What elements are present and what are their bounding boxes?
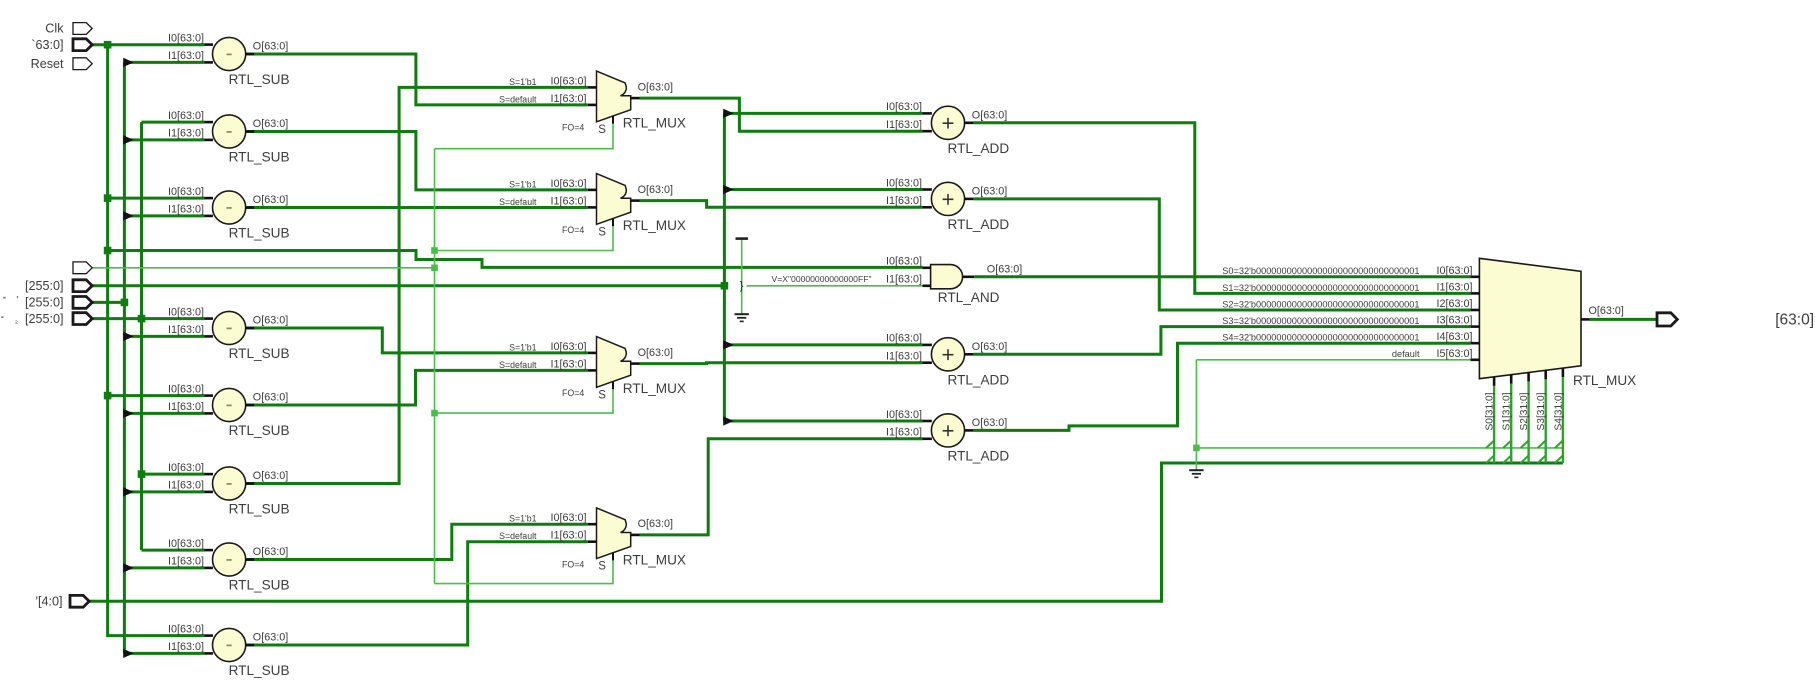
svg-text:I1[63:0]: I1[63:0]: [168, 50, 204, 62]
svg-text:RTL_SUB: RTL_SUB: [229, 72, 290, 87]
svg-text:RTL_MUX: RTL_MUX: [623, 381, 686, 396]
svg-text:I0[63:0]: I0[63:0]: [550, 512, 586, 524]
svg-text:RTL_SUB: RTL_SUB: [229, 346, 290, 361]
svg-text:I1[63:0]: I1[63:0]: [886, 195, 922, 207]
svg-text:O[63:0]: O[63:0]: [987, 264, 1022, 276]
svg-text:I1[63:0]: I1[63:0]: [886, 119, 922, 131]
svg-text:S: S: [598, 124, 606, 136]
svg-text:S=default: S=default: [499, 360, 537, 370]
svg-text:I1[63:0]: I1[63:0]: [550, 530, 586, 542]
svg-text:[255:0]: [255:0]: [25, 312, 64, 326]
svg-text:O[63:0]: O[63:0]: [253, 41, 288, 53]
svg-text:I2[63:0]: I2[63:0]: [1436, 298, 1472, 310]
svg-text:RTL_MUX: RTL_MUX: [623, 552, 686, 567]
svg-text:}: }: [740, 280, 744, 292]
svg-text:I1[63:0]: I1[63:0]: [550, 358, 586, 370]
svg-text:I1[63:0]: I1[63:0]: [886, 351, 922, 363]
svg-text:I0[63:0]: I0[63:0]: [168, 383, 204, 395]
svg-text:RTL_SUB: RTL_SUB: [229, 663, 290, 678]
svg-text:RTL_SUB: RTL_SUB: [229, 502, 290, 517]
svg-text:O[63:0]: O[63:0]: [638, 81, 673, 93]
svg-text:I0[63:0]: I0[63:0]: [168, 462, 204, 474]
svg-text:S0[31:0]: S0[31:0]: [1485, 392, 1496, 430]
svg-text:S=default: S=default: [499, 197, 537, 207]
svg-text:I1[63:0]: I1[63:0]: [168, 641, 204, 653]
svg-text:S1=32'b00000000000000000000000: S1=32'b00000000000000000000000000000001: [1222, 283, 1419, 293]
svg-text:O[63:0]: O[63:0]: [1589, 305, 1624, 317]
svg-text:V=X"00000000000000FF": V=X"00000000000000FF": [772, 274, 872, 284]
svg-text:I1[63:0]: I1[63:0]: [168, 480, 204, 492]
svg-text:I0[63:0]: I0[63:0]: [550, 75, 586, 87]
svg-text:I0[63:0]: I0[63:0]: [886, 409, 922, 421]
svg-text:S4=32'b00000000000000000000000: S4=32'b00000000000000000000000000000001: [1222, 333, 1419, 343]
svg-text:I1[63:0]: I1[63:0]: [168, 204, 204, 216]
svg-text:I0[63:0]: I0[63:0]: [886, 177, 922, 189]
svg-text:S: S: [598, 226, 606, 238]
svg-text:S=default: S=default: [499, 94, 537, 104]
svg-text:RTL_SUB: RTL_SUB: [229, 423, 290, 438]
svg-text:O[63:0]: O[63:0]: [253, 632, 288, 644]
svg-text:O[63:0]: O[63:0]: [253, 392, 288, 404]
svg-text:S1[31:0]: S1[31:0]: [1502, 392, 1513, 430]
svg-text:Clk: Clk: [45, 22, 64, 36]
svg-text:I0[63:0]: I0[63:0]: [1436, 265, 1472, 277]
svg-text:I0[63:0]: I0[63:0]: [886, 255, 922, 267]
svg-text:S=1'b1: S=1'b1: [509, 342, 536, 352]
svg-text:S4[31:0]: S4[31:0]: [1553, 392, 1564, 430]
svg-text:I0[63:0]: I0[63:0]: [168, 32, 204, 44]
svg-text:O[63:0]: O[63:0]: [253, 470, 288, 482]
svg-text:FO=4: FO=4: [562, 560, 584, 570]
svg-text:I1[63:0]: I1[63:0]: [1436, 281, 1472, 293]
svg-text:I0[63:0]: I0[63:0]: [886, 333, 922, 345]
svg-text:S: S: [598, 561, 606, 573]
svg-text:I5[63:0]: I5[63:0]: [1436, 348, 1472, 360]
svg-text:O[63:0]: O[63:0]: [638, 518, 673, 530]
svg-text:default: default: [1392, 349, 1420, 359]
svg-text:I0[63:0]: I0[63:0]: [168, 538, 204, 550]
svg-text:`63:0]: `63:0]: [31, 38, 63, 52]
svg-text:': ': [16, 295, 18, 306]
svg-text:I0[63:0]: I0[63:0]: [550, 341, 586, 353]
svg-text:I1[63:0]: I1[63:0]: [168, 556, 204, 568]
svg-text:RTL_MUX: RTL_MUX: [1573, 373, 1636, 388]
svg-text:RTL_ADD: RTL_ADD: [948, 448, 1010, 463]
svg-text:RTL_MUX: RTL_MUX: [623, 218, 686, 233]
svg-text:I1[63:0]: I1[63:0]: [886, 273, 922, 285]
svg-text:I1[63:0]: I1[63:0]: [886, 427, 922, 439]
svg-text:'[4:0]: '[4:0]: [36, 595, 63, 609]
svg-text:RTL_SUB: RTL_SUB: [229, 578, 290, 593]
svg-text:S2[31:0]: S2[31:0]: [1519, 392, 1530, 430]
svg-text:S=1'b1: S=1'b1: [509, 514, 536, 524]
svg-text:RTL_AND: RTL_AND: [938, 290, 1000, 305]
svg-text:O[63:0]: O[63:0]: [638, 184, 673, 196]
svg-text:O[63:0]: O[63:0]: [253, 546, 288, 558]
svg-text:O[63:0]: O[63:0]: [253, 118, 288, 130]
svg-text:O[63:0]: O[63:0]: [972, 341, 1007, 353]
svg-text:FO=4: FO=4: [562, 225, 584, 235]
svg-text:I1[63:0]: I1[63:0]: [168, 401, 204, 413]
svg-text:[63:0]: [63:0]: [1775, 312, 1814, 329]
svg-text:I0[63:0]: I0[63:0]: [168, 110, 204, 122]
svg-text:I1[63:0]: I1[63:0]: [168, 324, 204, 336]
svg-text:RTL_MUX: RTL_MUX: [623, 116, 686, 131]
svg-text:S3[31:0]: S3[31:0]: [1536, 392, 1547, 430]
svg-text:RTL_ADD: RTL_ADD: [948, 372, 1010, 387]
svg-text:I0[63:0]: I0[63:0]: [886, 101, 922, 113]
svg-text:I3[63:0]: I3[63:0]: [1436, 315, 1472, 327]
svg-text:O[63:0]: O[63:0]: [972, 417, 1007, 429]
svg-text:O[63:0]: O[63:0]: [972, 110, 1007, 122]
svg-text:O[63:0]: O[63:0]: [253, 194, 288, 206]
svg-text:I0[63:0]: I0[63:0]: [168, 186, 204, 198]
svg-text:I1[63:0]: I1[63:0]: [550, 93, 586, 105]
svg-text:I0[63:0]: I0[63:0]: [550, 178, 586, 190]
svg-text:RTL_SUB: RTL_SUB: [229, 150, 290, 165]
svg-text:I1[63:0]: I1[63:0]: [168, 128, 204, 140]
svg-text:[255:0]: [255:0]: [25, 279, 64, 293]
svg-text:O[63:0]: O[63:0]: [972, 186, 1007, 198]
svg-text:S=1'b1: S=1'b1: [509, 179, 536, 189]
svg-text:I0[63:0]: I0[63:0]: [168, 623, 204, 635]
svg-text:S=default: S=default: [499, 531, 537, 541]
svg-text:S0=32'b00000000000000000000000: S0=32'b00000000000000000000000000000001: [1222, 266, 1419, 276]
svg-text:RTL_ADD: RTL_ADD: [948, 217, 1010, 232]
svg-text:FO=4: FO=4: [562, 123, 584, 133]
svg-text:RTL_SUB: RTL_SUB: [229, 226, 290, 241]
svg-text:O[63:0]: O[63:0]: [253, 315, 288, 327]
svg-text:S3=32'b00000000000000000000000: S3=32'b00000000000000000000000000000001: [1222, 316, 1419, 326]
svg-text:O[63:0]: O[63:0]: [638, 347, 673, 359]
svg-text:RTL_ADD: RTL_ADD: [948, 141, 1010, 156]
svg-text:FO=4: FO=4: [562, 388, 584, 398]
svg-text:S=1'b1: S=1'b1: [509, 77, 536, 87]
svg-text:S: S: [598, 389, 606, 401]
svg-text:I0[63:0]: I0[63:0]: [168, 306, 204, 318]
svg-text:I1[63:0]: I1[63:0]: [550, 195, 586, 207]
svg-text:[255:0]: [255:0]: [25, 296, 64, 310]
svg-text:₂: ₂: [15, 316, 18, 325]
svg-text:I4[63:0]: I4[63:0]: [1436, 331, 1472, 343]
svg-text:S2=32'b00000000000000000000000: S2=32'b00000000000000000000000000000001: [1222, 299, 1419, 309]
svg-text:Reset: Reset: [31, 57, 64, 71]
